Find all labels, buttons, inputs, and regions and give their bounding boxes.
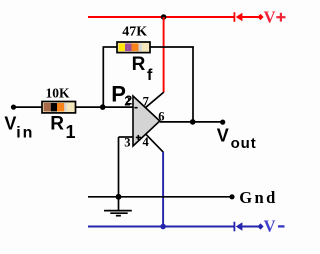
wire: V+ rail [88, 16, 234, 18]
wire: feedback loop right vertical to output [192, 47, 194, 122]
svg-text:V: V [217, 126, 229, 146]
svg-text:R: R [50, 113, 64, 134]
node P2 junction dot [100, 104, 106, 110]
node: V+ terminal dot [257, 14, 263, 20]
svg-text:in: in [16, 125, 34, 142]
wire: V+ terminal segment [242, 16, 258, 18]
junction: pin7 supply wire to V+ rail [161, 14, 167, 20]
label Vin [4, 114, 34, 142]
svg-text:V: V [264, 217, 276, 236]
diode polarity marker on V- rail [234, 222, 242, 232]
svg-text:V: V [264, 8, 276, 27]
wire: Rf to loop right corner [149, 46, 194, 48]
wire: input to R1 [14, 106, 43, 108]
junction: pin4 wire to V- rail [160, 224, 166, 230]
node: V- terminal dot [257, 223, 263, 229]
node: input terminal dot [11, 105, 16, 110]
wire: V- rail [88, 226, 234, 228]
svg-text:47K: 47K [122, 25, 147, 40]
resistor R1 (10K: brown-black-orange-silver) [42, 102, 76, 113]
ground symbol [104, 197, 132, 216]
wire: pin3 horizontal to op-amp [119, 136, 134, 138]
wire: pin4 supply vertical (blue) [162, 152, 164, 227]
node: Gnd terminal dot [229, 194, 234, 199]
op-amp U1 [133, 96, 160, 146]
op-amp non-inverting input plus sign [136, 136, 141, 138]
wire: pin4 diagonal from op-amp [146, 134, 164, 152]
wire: pin3 vertical to ground rail [118, 137, 120, 197]
wire: feedback loop left vertical from node P2 [102, 47, 104, 107]
label Vout [217, 126, 257, 153]
svg-text:7: 7 [143, 95, 149, 109]
junction: pin3 wire to ground rail [116, 194, 122, 200]
wire: pin7 supply vertical (red) [163, 17, 165, 92]
op-amp inverting input minus sign [134, 107, 137, 109]
svg-text:V: V [4, 114, 16, 134]
svg-text:3: 3 [124, 136, 130, 150]
label Rf [132, 54, 153, 84]
label P2 [111, 81, 132, 107]
svg-text:1: 1 [66, 122, 76, 142]
svg-text:R: R [132, 54, 146, 75]
wire: output [160, 121, 223, 123]
wire: ground rail [88, 196, 232, 198]
svg-text:10K: 10K [46, 86, 71, 101]
wire: feedback loop top-left to Rf [103, 46, 118, 48]
junction: feedback to output wire [190, 119, 196, 125]
wire: pin7 diagonal to op-amp [145, 92, 163, 108]
label R1 [50, 113, 75, 141]
wire: V- terminal segment [242, 226, 258, 228]
svg-text:f: f [147, 67, 153, 84]
svg-text:2: 2 [124, 95, 130, 109]
svg-text:Gnd: Gnd [239, 188, 277, 207]
node: output terminal dot [220, 120, 225, 125]
wire: R1 to op-amp inverting input [76, 106, 134, 108]
diode polarity marker on V+ rail [234, 12, 242, 22]
resistor Rf (47K: yellow-violet-orange-silver) [117, 42, 150, 53]
svg-text:out: out [231, 135, 257, 152]
